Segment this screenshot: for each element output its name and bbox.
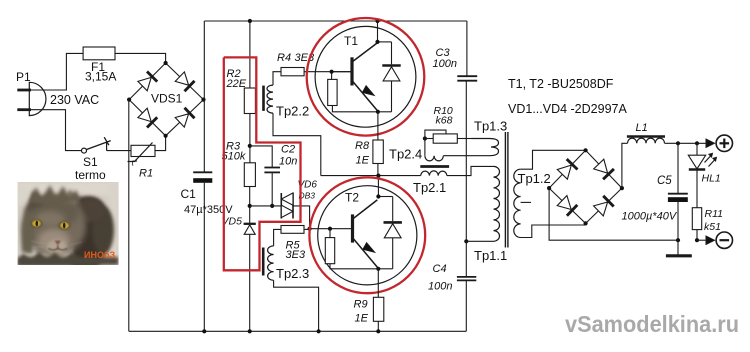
wire R10 top loop — [425, 130, 446, 138]
svg-text:S1: S1 — [83, 155, 98, 169]
node C1 bottom on rail — [202, 329, 206, 333]
wire top rail to R2 — [249, 21, 251, 88]
wire top rail — [204, 20, 467, 22]
svg-text:T1: T1 — [344, 34, 358, 48]
svg-text:L1: L1 — [636, 122, 648, 134]
svg-text:230 VAC: 230 VAC — [50, 93, 99, 107]
svg-text:10n: 10n — [279, 156, 297, 168]
svg-text:R1: R1 — [139, 168, 153, 180]
svg-text:VD1...VD4 -2D2997A: VD1...VD4 -2D2997A — [508, 102, 627, 116]
photo of cat (decorative image) — [13, 182, 119, 266]
node T2 emitter — [376, 267, 380, 271]
capacitor C5 1000u*40V — [622, 143, 688, 240]
transformer winding Tp2.2 — [264, 85, 310, 118]
wire Tp2.1 to Tp1.1 top — [447, 166, 494, 175]
transformer winding Tp2.3 — [263, 246, 309, 281]
capacitor C2 10n — [264, 144, 297, 173]
annotation red circle around T2 — [309, 177, 425, 293]
node T2 collector diode — [376, 194, 380, 198]
svg-text:k51: k51 — [704, 221, 721, 233]
transformer Tp1 core — [504, 132, 506, 248]
rectifier bridge VDS1 — [129, 63, 203, 136]
svg-text:22E: 22E — [226, 78, 247, 90]
inductor L1 — [627, 122, 665, 143]
wire Tp2.2 bottom return — [273, 113, 321, 176]
svg-text:HL1: HL1 — [702, 173, 721, 185]
node output bridge right — [620, 186, 624, 190]
wire Tp2.3 bottom return to rail — [274, 280, 319, 331]
wire R3 to VD5 — [249, 187, 251, 224]
wire Tp1.1 bottom tap — [466, 240, 493, 242]
svg-text:C2: C2 — [281, 144, 295, 156]
svg-text:VDS1: VDS1 — [151, 92, 183, 106]
ground — [666, 240, 692, 256]
svg-text:3,15A: 3,15A — [85, 70, 116, 84]
resistor R2 22E — [226, 68, 256, 114]
wire bottom rail — [129, 330, 467, 332]
svg-text:1E: 1E — [356, 155, 370, 167]
wire diac to T2 base node — [293, 206, 310, 229]
wire node to T2 base — [310, 228, 353, 230]
node VD5 bottom on rail — [248, 329, 252, 333]
svg-text:R8: R8 — [355, 140, 370, 152]
wire VD5 to bottom rail — [249, 234, 251, 331]
svg-text:1000µ*40V: 1000µ*40V — [622, 211, 678, 223]
resistor R10 k68 — [425, 105, 457, 143]
svg-text:C5: C5 — [657, 175, 672, 187]
node C5 bottom — [676, 238, 680, 242]
diac VD6 DB3 — [281, 180, 317, 219]
resistor R4 3E3 — [277, 52, 315, 76]
svg-text:t°: t° — [132, 158, 138, 168]
transformer winding Tp2.1 — [413, 167, 449, 196]
svg-text:T2: T2 — [345, 191, 359, 205]
wire Tp2.3 top to R5 — [274, 229, 281, 246]
wire fuse to bridge top — [115, 53, 166, 63]
resistor R11 k51 — [692, 208, 723, 241]
wire bridge left down to bottom rail — [128, 100, 130, 332]
svg-text:Tp1.1: Tp1.1 — [474, 248, 507, 263]
wire Tp2.2 top to R4 — [273, 72, 281, 85]
wire Tp1.2 center tap stub — [521, 201, 531, 203]
svg-text:100n: 100n — [428, 281, 452, 293]
node R3 bottom diac feed — [248, 204, 252, 208]
terminal plus — [706, 135, 733, 151]
node output bridge top — [584, 148, 588, 152]
wire half-bridge midpoint — [321, 175, 421, 177]
plug P1 — [16, 70, 46, 116]
svg-text:vSamodelkina.ru: vSamodelkina.ru — [565, 311, 739, 337]
capacitor C3 100n — [433, 47, 478, 81]
node T1 collector diode — [375, 40, 379, 44]
wire R2 to R3 — [249, 114, 251, 163]
wire R10 to Tp1.3 top — [457, 138, 471, 140]
wire minus rail to terminal — [697, 239, 707, 241]
svg-text:47µ*350V: 47µ*350V — [184, 204, 233, 216]
svg-text:Tp2.3: Tp2.3 — [276, 266, 309, 281]
node Tp1.1 bottom tap — [464, 239, 468, 243]
wire C3 to C4 center leg — [465, 81, 467, 277]
wire C4 to bottom rail — [465, 280, 467, 331]
wire Tp1.2 bottom tap to bridge bottom — [521, 223, 586, 237]
annotation red outline around starter components — [224, 57, 301, 270]
node bridge bottom — [164, 134, 168, 138]
switch S1 termo — [75, 137, 111, 182]
node T1 emitter — [376, 110, 380, 114]
svg-text:k68: k68 — [436, 115, 453, 127]
node C5 top — [676, 141, 680, 145]
node output bridge bottom — [584, 221, 588, 225]
node R5 diac T2 base — [308, 227, 312, 231]
svg-text:100n: 100n — [433, 58, 457, 70]
wire R5 to T2 base — [304, 228, 310, 230]
wire R8 to midpoint — [377, 164, 379, 176]
output bridge diodes VD1..VD4 — [549, 150, 622, 223]
terminal minus — [706, 232, 733, 248]
node R10 Tp2.4 junction — [423, 136, 427, 140]
fuse F1 3,15A — [83, 47, 117, 84]
svg-text:termo: termo — [75, 168, 106, 182]
thermistor R1 — [128, 143, 156, 180]
wire bridge minus down — [549, 188, 678, 240]
node C2 bottom — [270, 204, 274, 208]
resistor R8 1E — [355, 140, 383, 167]
transistor T1 (BU2508DF) — [315, 21, 416, 127]
node R9 on rail — [376, 329, 380, 333]
wire R4 to T1 base — [304, 71, 351, 73]
resistor R9 1E — [354, 297, 384, 324]
wire Tp2.4 drop — [424, 139, 426, 156]
node output bridge left — [547, 186, 551, 190]
node R2 R3 junction — [248, 144, 252, 148]
winding Tp1.1 — [474, 166, 507, 263]
wire plug bottom to switch — [31, 110, 81, 151]
transistor T2 (BU2508DF) — [318, 176, 417, 285]
svg-text:R11: R11 — [705, 208, 723, 220]
node HL1 top — [695, 141, 699, 145]
capacitor C4 100n — [428, 263, 476, 293]
wire node to diac — [250, 205, 282, 207]
svg-text:Tp1.3: Tp1.3 — [474, 119, 507, 134]
resistor R5 3E3 — [281, 226, 306, 262]
wire T1 emitter to R8 — [377, 112, 379, 140]
node R11 bottom — [695, 238, 699, 242]
wire R2R3 junction to C2 — [250, 146, 272, 167]
svg-text:R4: R4 — [277, 52, 291, 64]
node top rail R2 branch — [248, 19, 252, 23]
wire C1 down to bottom rail — [203, 183, 205, 331]
winding Tp1.2 — [514, 169, 551, 237]
wire R9 to bottom rail — [377, 321, 379, 331]
node top rail T1 collector — [375, 19, 379, 23]
annotation red circle around T1 — [307, 18, 425, 136]
wire plug top to fuse — [31, 53, 83, 90]
svg-text:Tp2.4: Tp2.4 — [389, 147, 422, 162]
wire T2 emitter to R9 — [377, 269, 379, 298]
wire R1 to bridge bottom — [155, 136, 166, 151]
node midpoint R8 T2 — [376, 174, 380, 178]
wire top rail to C3 — [466, 21, 468, 76]
wire plus bus vertical — [203, 21, 205, 172]
svg-text:3E3: 3E3 — [286, 249, 306, 261]
transformer winding Tp2.4 — [389, 147, 443, 162]
svg-text:T1, T2 -BU2508DF: T1, T2 -BU2508DF — [508, 77, 614, 91]
svg-text:C1: C1 — [181, 187, 197, 201]
node T2 base — [328, 227, 332, 231]
wire Tp1.2 top tap to bridge top — [521, 150, 586, 169]
svg-text:C4: C4 — [433, 263, 447, 275]
svg-text:P1: P1 — [16, 70, 31, 84]
wire L1 to plus terminal — [665, 142, 708, 144]
node Tp2.3 return on rail — [317, 329, 321, 333]
svg-text:510k: 510k — [222, 151, 246, 163]
svg-text:Tp2.2: Tp2.2 — [276, 104, 309, 119]
LED HL1 — [688, 143, 720, 207]
node bridge right — [201, 98, 205, 102]
winding Tp1.3 finger loops — [443, 119, 507, 156]
wire switch to thermistor R1 — [107, 150, 131, 152]
node bridge left — [127, 98, 131, 102]
svg-text:R9: R9 — [354, 299, 368, 311]
svg-text:ИНОбЗ: ИНОбЗ — [84, 250, 116, 260]
svg-text:Tp1.2: Tp1.2 — [518, 171, 551, 186]
node T1 base — [330, 70, 334, 74]
wire bridge plus up to L1 — [622, 143, 628, 188]
svg-text:1E: 1E — [355, 313, 369, 325]
wire C2 to diac node — [271, 172, 273, 206]
resistor R3 510k — [222, 141, 256, 187]
svg-text:Tp2.1: Tp2.1 — [413, 180, 446, 195]
capacitor C1 47u*350V — [181, 172, 234, 216]
node bridge top — [164, 61, 168, 65]
diode VD5 — [222, 216, 256, 235]
